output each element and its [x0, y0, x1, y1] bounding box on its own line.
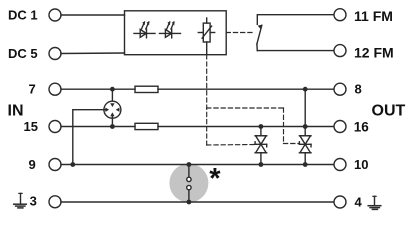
- wire DC5 to indicator box: [61, 52, 125, 55]
- LED V1: [140, 29, 146, 37]
- svg-text:8: 8: [355, 82, 362, 97]
- dashed actuator link box to relay: [226, 32, 254, 34]
- svg-text:11 FM: 11 FM: [354, 8, 393, 24]
- wire DC1 to indicator box: [61, 14, 125, 16]
- dashed link vertical right: [283, 108, 285, 144]
- terminal 12FM: [334, 45, 346, 57]
- terminal 16: [334, 121, 346, 133]
- thermal disconnect / varistor element: [206, 18, 208, 23]
- wire resistor to terminal 16: [158, 126, 334, 128]
- junction TVS2 row16: [303, 124, 308, 129]
- TVS diode D2: [304, 89, 306, 136]
- junction spark gap top: [187, 162, 192, 167]
- gray highlight circle: [169, 164, 208, 203]
- wire GDT left electrode: [73, 110, 106, 165]
- terminal 4: [334, 196, 346, 208]
- resistor R2: [135, 123, 158, 129]
- junction TVS1 bottom: [259, 162, 264, 167]
- terminal 8: [334, 83, 346, 95]
- terminal DC1: [49, 9, 61, 21]
- dashed link horizontal upper: [207, 107, 284, 109]
- relay contact fixed stub: [257, 15, 334, 25]
- ground symbol left: [19, 192, 22, 194]
- LED V2 wire: [160, 32, 181, 34]
- varistor lead down: [206, 42, 208, 55]
- status indicator box: [125, 11, 227, 55]
- svg-text:10: 10: [354, 157, 368, 172]
- svg-text:*: *: [209, 163, 221, 195]
- LED V1 wire: [134, 32, 155, 34]
- relay blade: [257, 25, 262, 44]
- junction GDT bottom: [110, 124, 115, 129]
- junction TVS1 top: [259, 124, 264, 129]
- junction row8 TVS: [303, 87, 308, 92]
- svg-text:IN: IN: [8, 102, 24, 119]
- terminal 9: [49, 159, 61, 171]
- terminal 3: [49, 196, 61, 208]
- wire 12FM: [257, 50, 334, 52]
- svg-text:9: 9: [29, 157, 36, 172]
- terminal DC5: [49, 48, 61, 60]
- svg-text:4: 4: [355, 195, 363, 210]
- resistor R1: [135, 86, 158, 92]
- svg-text:15: 15: [24, 119, 38, 134]
- gas discharge tube lead top: [111, 89, 113, 103]
- terminal 15: [49, 121, 61, 133]
- dashed link to TVS2: [284, 143, 299, 145]
- svg-text:DC 5: DC 5: [8, 46, 38, 61]
- svg-text:12 FM: 12 FM: [354, 45, 394, 61]
- junction GDT to row9: [70, 162, 75, 167]
- ground symbol right: [373, 195, 376, 197]
- junction TVS2 bottom: [303, 162, 308, 167]
- wire 7 to resistor: [61, 88, 135, 90]
- wire 3 to terminal 4: [61, 201, 334, 203]
- terminal 10: [334, 159, 346, 171]
- dashed link vertical from disconnect: [206, 55, 208, 145]
- terminal 11FM: [334, 9, 346, 21]
- svg-text:7: 7: [29, 82, 36, 97]
- TVS diode D1: [260, 127, 262, 136]
- svg-text:DC 1: DC 1: [8, 8, 38, 23]
- svg-text:OUT: OUT: [372, 102, 406, 119]
- LED V2: [165, 29, 171, 37]
- gas discharge tube lead bottom: [111, 116, 113, 127]
- wire 9 to terminal 10: [61, 164, 334, 166]
- gas discharge tube U1: [104, 101, 121, 118]
- wire 15 to resistor: [61, 126, 135, 128]
- terminal 7: [49, 83, 61, 95]
- junction spark gap bottom: [187, 200, 192, 205]
- spark gap to ground: [188, 165, 190, 178]
- svg-text:16: 16: [354, 119, 370, 134]
- svg-text:3: 3: [30, 194, 37, 209]
- wire resistor to terminal 8: [158, 88, 334, 90]
- dashed link to TVS1: [207, 144, 255, 147]
- junction GDT top: [110, 87, 115, 92]
